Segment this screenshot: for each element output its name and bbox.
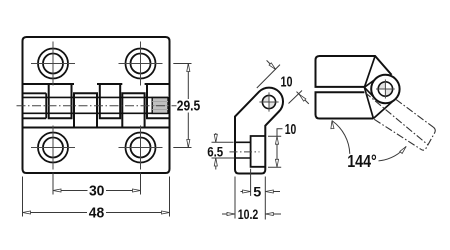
dim 10 right extension lines [268, 136, 281, 167]
dim 10 diagonal arrow stub lower [297, 92, 309, 104]
dim 10.2 extension line left [234, 177, 236, 219]
svg-text:5: 5 [253, 183, 261, 199]
knuckle pin hole [378, 82, 392, 96]
svg-text:48: 48 [89, 206, 105, 222]
knuckle T1 (top leaf) [49, 84, 72, 118]
left body edge through knuckle band [22, 84, 24, 128]
dim 10.2 line with outside arrows [222, 213, 281, 215]
dim 10 diagonal extension line A [257, 65, 280, 88]
lower leaf side [316, 92, 374, 118]
knuckle E (top leaf, right end) [147, 84, 170, 118]
left end knuckle cylinder [23, 93, 47, 118]
hole bottom-left [38, 133, 68, 163]
svg-text:10.2: 10.2 [238, 206, 259, 222]
opened leaf phantom mating-face line [396, 99, 433, 127]
profile notch [251, 136, 266, 167]
knuckle B1 (bottom leaf) [74, 93, 97, 127]
hole top-right [126, 49, 156, 79]
upper leaf side [316, 56, 392, 87]
lower leaf chamfer tangent edge [373, 99, 394, 118]
knuckle T2 (top leaf) [100, 84, 120, 118]
svg-text:29.5: 29.5 [177, 98, 201, 114]
lobe pin hole [262, 95, 275, 108]
svg-text:10: 10 [285, 122, 297, 138]
right body edge through knuckle band [169, 84, 171, 128]
knuckle hole crosshair [376, 80, 395, 99]
dim 6.5 extension lines [212, 142, 235, 158]
pin right end knurled (gray) [152, 98, 168, 114]
pin barrel lines [23, 97, 169, 113]
side view centerline [230, 151, 260, 153]
leaf junction cross lines [364, 79, 375, 99]
opened leaf phantom end cap [421, 127, 435, 150]
bottom leaf plate [23, 128, 170, 174]
upper leaf chamfer roof edge [364, 56, 375, 87]
opened leaf phantom inner line [365, 92, 428, 144]
dim 48 line [23, 212, 170, 214]
dim 10 diagonal extension line B [289, 91, 303, 104]
dim 10 diagonal arrow stub upper [267, 60, 276, 69]
top leaf plate [23, 37, 170, 84]
dim 5 line with outside arrows [241, 191, 281, 193]
screw bore lines [235, 142, 251, 158]
svg-text:6.5: 6.5 [207, 144, 223, 160]
pin centerline [17, 105, 177, 107]
svg-text:30: 30 [89, 184, 105, 200]
dim 5 extension lines [251, 169, 266, 220]
dim 30 line [53, 190, 141, 192]
leaf side outline with knuckle lobe [235, 88, 283, 174]
dim 29.5 extension lines [173, 64, 191, 148]
hole bottom-right [126, 133, 156, 163]
knuckle outer circle [371, 75, 399, 103]
hole top-left [38, 49, 68, 79]
top leaf bottom edge segments [23, 83, 170, 85]
dim 30 extension lines [53, 173, 141, 195]
dim 29.5 line [187, 64, 189, 148]
angle arc 144 [332, 121, 406, 161]
lower leaf chamfer roof edge [364, 87, 373, 118]
lobe hole diagonal crosshair [259, 92, 278, 111]
dim 6.5 line with outside arrows [215, 133, 217, 170]
dim 48 extension lines [23, 177, 170, 217]
svg-text:144°: 144° [347, 151, 377, 171]
dim 10 right line with top jog [277, 129, 283, 168]
bottom leaf top edge [23, 127, 170, 129]
knuckle B2 (bottom leaf) [122, 93, 144, 127]
svg-text:10: 10 [281, 75, 293, 91]
opened leaf phantom outer edge [374, 119, 421, 149]
